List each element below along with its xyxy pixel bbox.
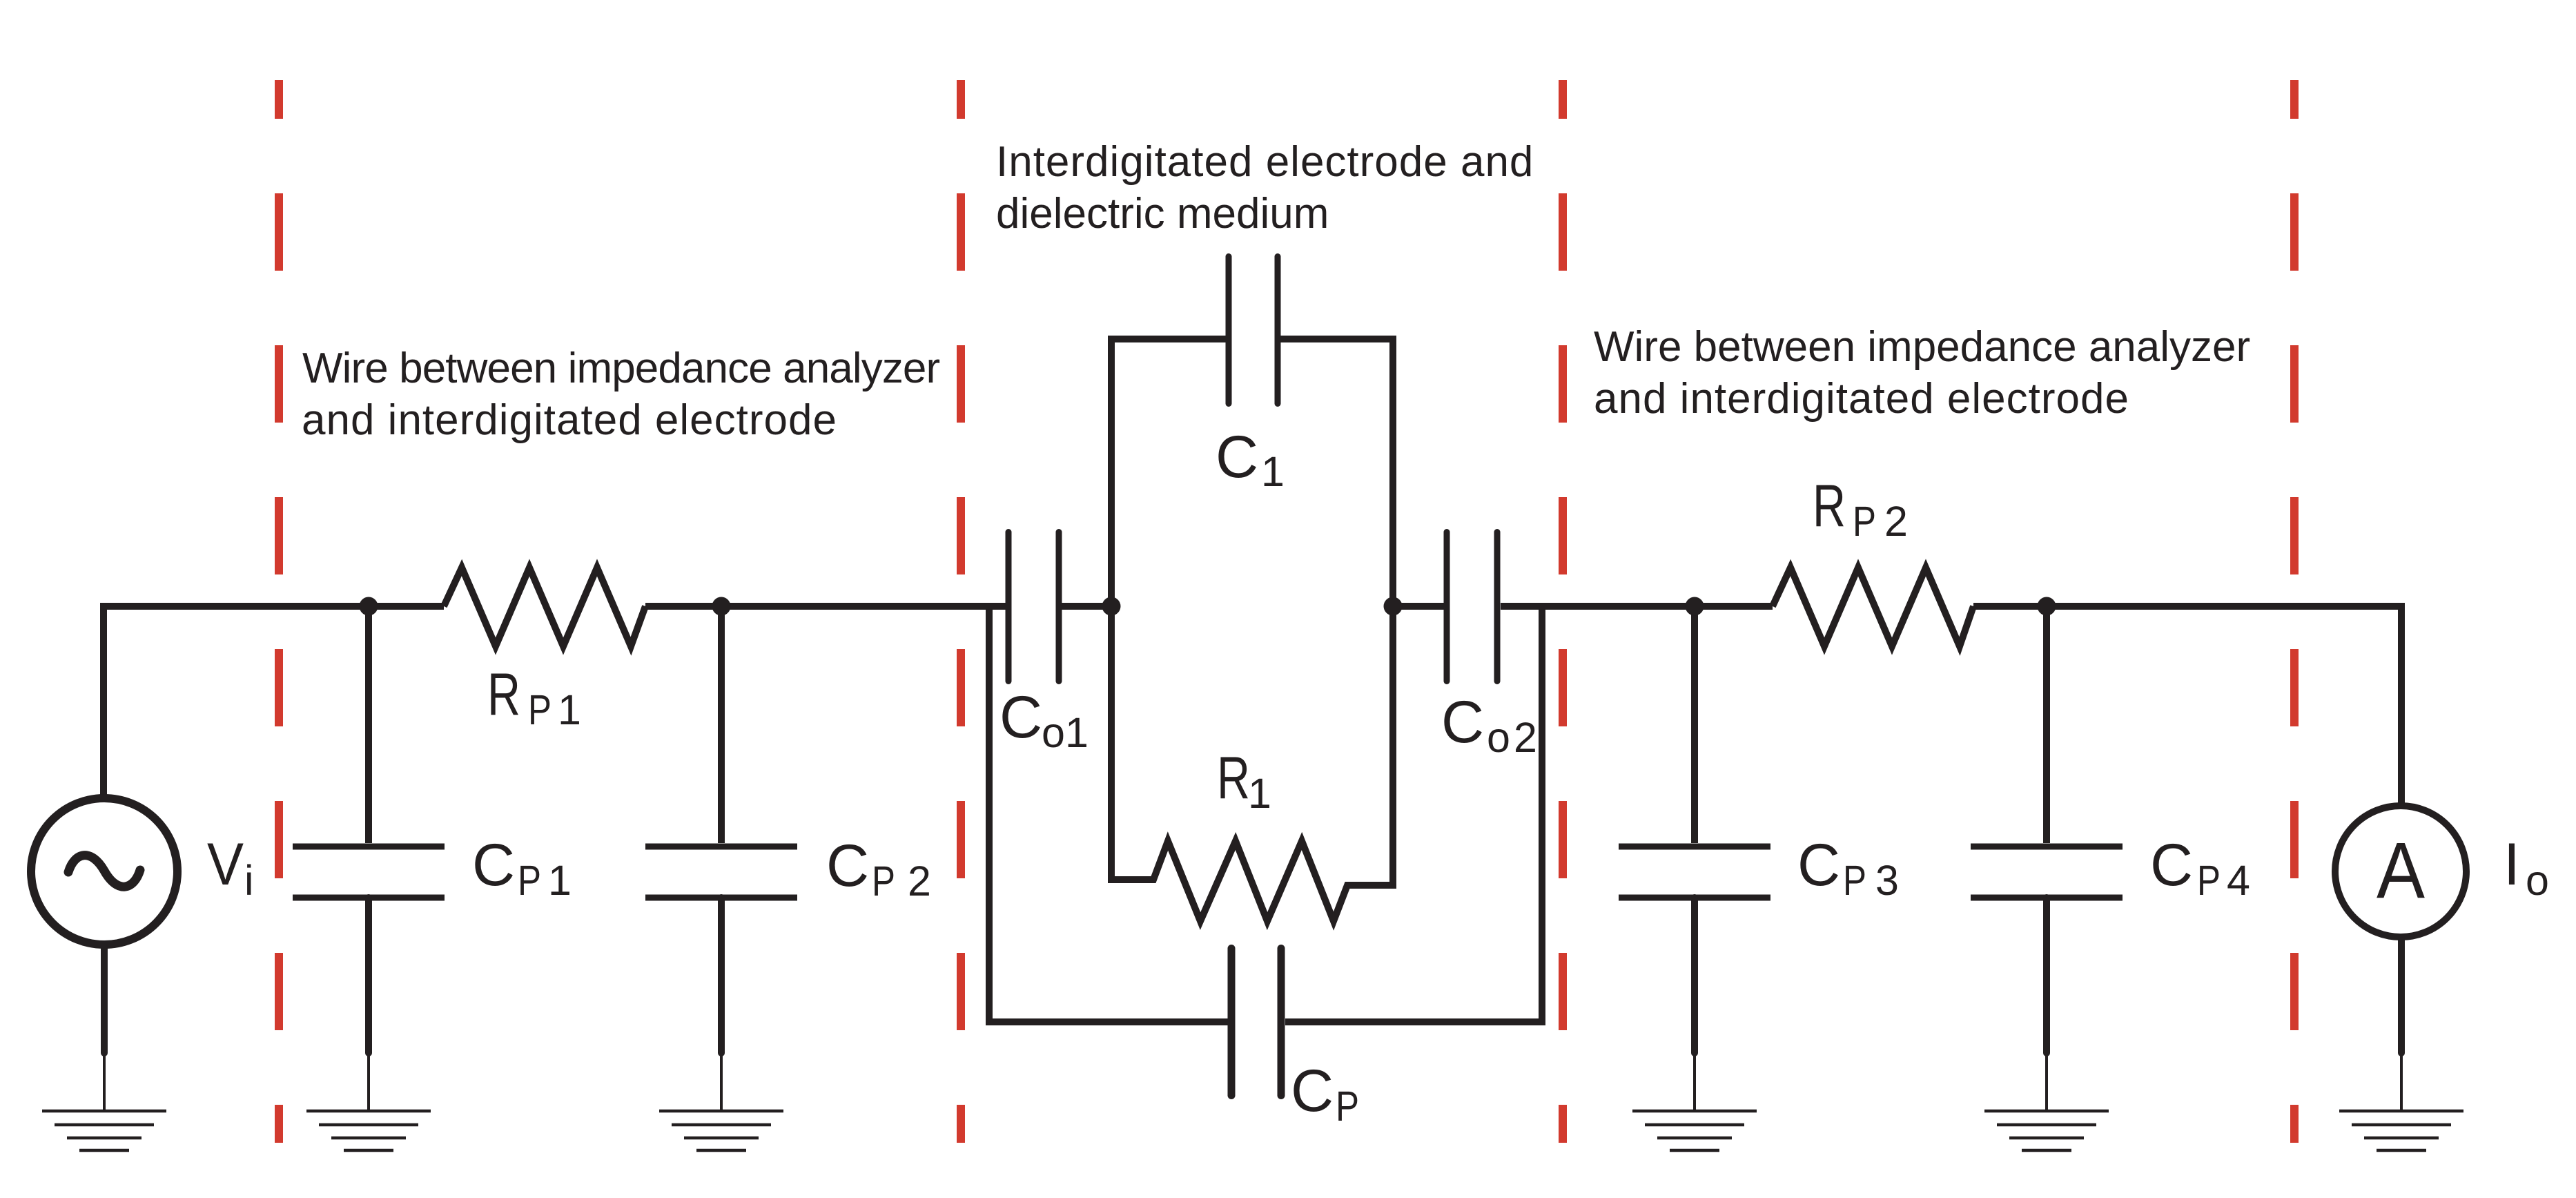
label Co1	[999, 684, 1089, 756]
capacitor CP1 top plate	[293, 844, 445, 850]
svg-text:C: C	[826, 833, 869, 899]
svg-text:P: P	[1843, 857, 1866, 904]
label CP (parasitic capacitor)	[1291, 1058, 1359, 1130]
label RP2	[1813, 473, 1908, 545]
boundary dashed line 3 (interdigitated electrode / wire section)	[1559, 80, 1567, 1143]
node junction dot (right bus / CP4)	[2038, 597, 2056, 616]
capacitor CP1 vertical branch wire (top)	[365, 603, 372, 843]
svg-text:2: 2	[1884, 498, 1908, 545]
wire: Co2 node drop to bottom loop	[1539, 603, 1545, 1025]
label RP1	[487, 661, 581, 733]
svg-text:o: o	[2526, 857, 2549, 904]
wire: C1/R1 loop right vertical	[1389, 336, 1396, 889]
svg-text:C: C	[999, 684, 1042, 751]
svg-text:and interdigitated electrode: and interdigitated electrode	[302, 396, 837, 444]
boundary dashed line 1 (impedance analyzer / wire section)	[275, 80, 283, 1143]
wire: main horizontal bus left segment (source to Co1 left plate)	[100, 603, 444, 610]
voltage source sine symbol	[68, 856, 140, 887]
label CP4	[2150, 832, 2250, 904]
svg-text:1: 1	[1065, 709, 1089, 756]
resistor R1	[1108, 841, 1396, 921]
wire: bottom loop right (CP right plate to Co2 drop)	[1285, 1018, 1545, 1025]
svg-text:1: 1	[548, 857, 572, 904]
svg-text:Wire between impedance analyze: Wire between impedance analyzer	[1594, 323, 2250, 371]
svg-text:Wire between impedance analyze: Wire between impedance analyzer	[302, 345, 940, 392]
svg-text:P: P	[528, 686, 552, 733]
capacitor Co2 right plate	[1494, 532, 1501, 682]
node junction dot (left bus / CP1)	[360, 597, 378, 616]
node junction dot (loop / Co2)	[1384, 597, 1403, 616]
svg-text:1: 1	[1261, 448, 1285, 495]
svg-text:P: P	[518, 857, 541, 904]
svg-text:R: R	[1217, 745, 1250, 811]
node junction dot (left bus / CP2)	[712, 597, 731, 616]
wire: main horizontal bus right segment (Co2 right plate to RP2)	[1501, 603, 1773, 610]
capacitor CP3 top plate	[1619, 844, 1770, 850]
capacitor CP right plate	[1278, 949, 1285, 1096]
svg-text:2: 2	[1514, 714, 1537, 761]
voltage source Vi circle	[31, 798, 177, 945]
resistor RP2	[1773, 568, 1973, 646]
label R1	[1217, 745, 1271, 817]
label Vi	[207, 831, 254, 904]
capacitor Co1 right plate	[1056, 532, 1062, 682]
capacitor C1 right plate	[1275, 257, 1281, 404]
svg-text:3: 3	[1875, 857, 1899, 904]
wire: voltage source bottom lead	[101, 948, 108, 1053]
svg-text:1: 1	[1248, 770, 1271, 817]
svg-text:P: P	[872, 858, 895, 905]
svg-text:P: P	[1853, 498, 1876, 545]
svg-text:R: R	[487, 661, 520, 728]
capacitor Co2 left plate	[1444, 532, 1450, 682]
capacitor CP2 branch wire	[718, 603, 725, 843]
svg-text:P: P	[2197, 857, 2221, 904]
svg-text:o: o	[1042, 709, 1065, 756]
svg-text:P: P	[1336, 1083, 1359, 1130]
svg-text:V: V	[207, 831, 244, 898]
svg-text:2: 2	[908, 858, 931, 905]
wire: between C1 loop right line and Co2 left plate	[1393, 603, 1444, 610]
svg-text:4: 4	[2227, 857, 2250, 904]
svg-text:o: o	[1487, 714, 1510, 761]
capacitor C1 left plate	[1226, 257, 1232, 404]
capacitor CP1 bottom wire	[365, 898, 372, 1053]
wire: ammeter bottom lead	[2398, 940, 2405, 1053]
boundary dashed line 4 (wire / impedance analyzer section)	[2290, 80, 2299, 1143]
ground (below CP4)	[1984, 1050, 2109, 1150]
capacitor CP3 bottom wire	[1691, 898, 1698, 1053]
label Co2	[1441, 689, 1537, 761]
label CP1	[472, 832, 572, 904]
svg-text:C: C	[1216, 424, 1258, 490]
wire: Co1 node drop to bottom loop	[986, 603, 993, 1025]
capacitor CP3 branch wire	[1691, 603, 1698, 843]
capacitor CP4 bottom wire	[2043, 898, 2050, 1053]
capacitor Co1 left plate	[1006, 532, 1012, 682]
resistor RP1	[444, 568, 645, 646]
svg-text:1: 1	[558, 686, 581, 733]
svg-text:I: I	[2504, 831, 2520, 898]
capacitor CP4 bottom plate	[1971, 895, 2123, 901]
svg-text:and interdigitated electrode: and interdigitated electrode	[1594, 375, 2129, 423]
capacitor CP1 bottom plate	[293, 895, 445, 901]
capacitor CP4 branch wire	[2043, 603, 2050, 843]
svg-text:C: C	[472, 832, 515, 898]
svg-text:C: C	[2150, 832, 2193, 898]
capacitor CP4 top plate	[1971, 844, 2123, 850]
label Io	[2504, 831, 2549, 904]
wire: RP2 right side to ammeter corner	[1973, 603, 2401, 610]
wire: between Co1 right plate and C1 loop left line	[1062, 603, 1111, 610]
label CP3	[1797, 832, 1899, 904]
boundary dashed line 2 (wire / interdigitated electrode section)	[957, 80, 965, 1143]
node junction dot (Co1 / loop)	[1102, 597, 1121, 616]
svg-text:C: C	[1441, 689, 1484, 755]
wire: down to ammeter	[2398, 603, 2405, 803]
svg-text:A: A	[2377, 827, 2425, 915]
wire: bottom loop left (to CP left plate)	[986, 1018, 1228, 1025]
label CP2	[826, 833, 931, 905]
capacitor CP2 bottom plate	[645, 895, 797, 901]
svg-text:R: R	[1813, 473, 1846, 539]
wire: C1/R1 loop left vertical	[1108, 336, 1115, 883]
capacitor CP3 bottom plate	[1619, 895, 1770, 901]
ground (below Vi)	[42, 1050, 166, 1150]
node junction dot (right bus / CP3)	[1686, 597, 1704, 616]
svg-text:i: i	[244, 857, 254, 904]
ground (below CP3)	[1632, 1050, 1757, 1150]
wire: loop top right segment	[1278, 336, 1396, 342]
ground (below ammeter)	[2339, 1050, 2463, 1150]
svg-text:Interdigitated electrode and: Interdigitated electrode and	[996, 138, 1534, 186]
capacitor CP2 top plate	[645, 844, 797, 850]
ground (below CP1)	[306, 1050, 431, 1150]
svg-text:dielectric medium: dielectric medium	[996, 190, 1329, 238]
label C1	[1216, 424, 1285, 495]
capacitor CP2 bottom wire	[718, 898, 725, 1053]
capacitor CP left plate	[1228, 949, 1236, 1096]
ground (below CP2)	[659, 1050, 783, 1150]
ammeter circle	[2335, 806, 2466, 937]
svg-text:C: C	[1797, 832, 1840, 898]
wire: loop top left segment	[1108, 336, 1229, 342]
svg-text:C: C	[1291, 1058, 1334, 1124]
wire: source top lead up to bus corner	[100, 603, 107, 795]
